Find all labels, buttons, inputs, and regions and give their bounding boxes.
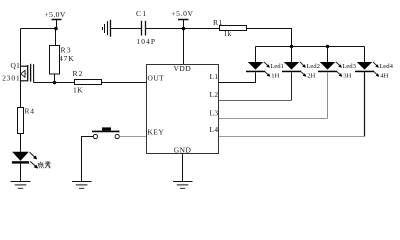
svg-text:Led3: Led3 — [342, 63, 356, 70]
svg-text:Led4: Led4 — [379, 63, 393, 70]
ground (top, rotated left of C1) — [103, 20, 111, 37]
transistor Q1 2301 — [2, 61, 30, 83]
label 点数 (drawn strokes) — [38, 161, 51, 168]
wire: R1 to LED rail drop — [247, 29, 292, 47]
LED Led1 — [246, 47, 284, 80]
svg-text:1K: 1K — [73, 85, 83, 94]
ground (bottom-left LED) — [11, 182, 31, 189]
svg-text:2301: 2301 — [2, 73, 20, 82]
power +5.0V rail 1 — [45, 10, 66, 20]
svg-text:L1: L1 — [210, 72, 219, 81]
ground (button) — [72, 182, 92, 189]
wire: OUT net from gate to R2 — [34, 82, 75, 84]
svg-text:L4: L4 — [210, 125, 219, 134]
svg-text:KEY: KEY — [148, 127, 165, 136]
emission arrow 1 — [30, 152, 36, 158]
wire: R4 bottom to LED — [20, 134, 22, 152]
node: junction dot +5V2/C1/R1 — [182, 27, 186, 31]
svg-text:GND: GND — [174, 145, 192, 154]
wire: +5V2 stem down to VDD pin — [183, 20, 185, 65]
bottom stub — [21, 80, 28, 82]
middle stub — [21, 73, 28, 75]
node: junction dot at +5V1 — [54, 27, 58, 31]
svg-text:C1: C1 — [136, 9, 147, 18]
wire: ground to C1 left plate — [111, 28, 142, 30]
svg-text:+5.0V: +5.0V — [45, 10, 66, 19]
svg-text:1H: 1H — [271, 72, 279, 79]
arrow triangle — [21, 70, 25, 77]
wire: junction to R1 — [184, 28, 220, 30]
resistor R3 47K — [50, 46, 75, 75]
svg-text:L2: L2 — [210, 90, 219, 99]
wire: Led1 cathode to L1 — [219, 72, 256, 82]
wire: C1 right plate to +5V2 junction — [146, 28, 184, 30]
wire: Led4 cathode to L4 — [364, 72, 366, 136]
LED Led3 — [318, 47, 357, 80]
svg-text:104P: 104P — [137, 37, 157, 46]
wire: gate lead L-shape — [33, 64, 35, 82]
op-amp U1 (controller IC) — [147, 64, 219, 154]
ground (IC GND) — [173, 182, 193, 189]
node: rail dot at Led3 — [326, 45, 329, 48]
push button KEY — [92, 127, 120, 138]
svg-text:L3: L3 — [210, 109, 219, 118]
svg-text:R2: R2 — [73, 69, 84, 78]
wire: GND pin down — [182, 154, 184, 182]
channel bar — [27, 65, 29, 81]
wire: R2 to OUT pin — [102, 82, 147, 84]
wire: R3 bottom lead — [54, 74, 56, 83]
resistor R4 — [18, 107, 35, 134]
power +5.0V rail 2 — [171, 9, 193, 20]
resistor R2 1K — [73, 69, 102, 94]
wire: LED cathode to ground — [20, 164, 22, 182]
svg-text:Led1: Led1 — [270, 63, 284, 70]
capacitor C1 104P — [136, 9, 156, 46]
resistor R1 1k — [213, 18, 247, 38]
svg-text:1k: 1k — [224, 29, 232, 38]
wire: button left down to ground — [82, 137, 94, 182]
wire: Led3 cathode to L3 — [327, 72, 329, 118]
node: junction dot R3/R2/gate — [53, 81, 57, 85]
wire: Led2 cathode to L2 — [291, 72, 293, 100]
svg-text:47K: 47K — [59, 54, 74, 63]
svg-text:OUT: OUT — [148, 74, 165, 83]
LED Led2 — [282, 47, 320, 80]
LED Led4 — [355, 47, 394, 80]
top stub — [21, 65, 28, 67]
svg-text:3H: 3H — [343, 72, 351, 79]
wire: button right to KEY pin — [119, 136, 146, 138]
wire: left vertical column down to R4 — [20, 29, 22, 108]
LED indicator (bottom-left) — [12, 152, 38, 169]
wire: +5V1 stem down to R3 — [56, 20, 57, 46]
svg-text:Led2: Led2 — [306, 63, 320, 70]
svg-text:2H: 2H — [307, 72, 315, 79]
node: rail dot at Led2 — [290, 45, 293, 48]
wire: horizontal from junction to left column — [21, 28, 57, 30]
svg-text:Q1: Q1 — [11, 61, 21, 70]
svg-text:+5.0V: +5.0V — [171, 9, 193, 18]
svg-text:VDD: VDD — [174, 64, 192, 73]
gate bar — [30, 64, 32, 82]
svg-text:4H: 4H — [380, 72, 388, 79]
wire: LED anode rail — [256, 46, 365, 48]
svg-text:R4: R4 — [25, 107, 35, 116]
emission arrow 2 — [30, 161, 36, 167]
